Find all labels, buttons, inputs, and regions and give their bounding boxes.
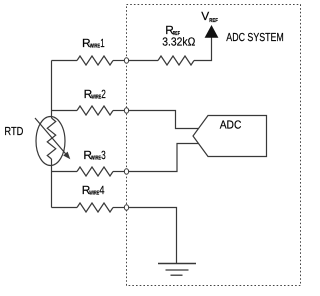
- wire: left vertical bus bottom (RTD down to wire4): [51, 159, 53, 208]
- svg-text:RTD: RTD: [4, 125, 23, 138]
- node 2: [124, 108, 128, 113]
- resistor RWIRE4: [77, 203, 113, 212]
- wire: left vertical bus top (wire1 down to RTD): [51, 61, 53, 119]
- svg-text:3: 3: [101, 148, 106, 162]
- wire: node4 to ground: [128, 208, 176, 264]
- svg-text:3.32kΩ: 3.32kΩ: [162, 36, 195, 49]
- svg-text:WIRE: WIRE: [91, 155, 101, 161]
- node 4: [124, 205, 128, 210]
- wire: RREF to VREF riser: [194, 38, 212, 61]
- svg-text:1: 1: [100, 36, 105, 50]
- wire 3 right segment: [113, 171, 125, 173]
- wire: node3 to ADC negative input: [128, 144, 198, 172]
- resistor RREF: [158, 56, 194, 65]
- wire 1 right segment: [113, 60, 125, 62]
- svg-text:WIRE: WIRE: [89, 190, 99, 196]
- wire 2 left segment: [52, 110, 78, 112]
- wire: node1 to RREF: [128, 60, 158, 62]
- svg-text:2: 2: [101, 87, 106, 101]
- resistor RWIRE3: [77, 167, 113, 176]
- wire 4 left segment: [52, 207, 78, 209]
- node 1: [124, 58, 128, 63]
- wire 3 left segment: [52, 171, 78, 173]
- VREF supply triangle: [205, 25, 219, 38]
- svg-text:ADC: ADC: [220, 118, 242, 131]
- svg-text:4: 4: [99, 183, 105, 197]
- wire 2 right segment: [113, 110, 125, 112]
- wire 4 right segment: [113, 207, 125, 209]
- svg-text:WIRE: WIRE: [90, 44, 100, 50]
- wire 1 left segment: [52, 60, 78, 62]
- resistor RWIRE2: [77, 106, 113, 115]
- RTD internal resistor zigzag: [47, 118, 56, 159]
- svg-text:ADC SYSTEM: ADC SYSTEM: [226, 31, 284, 44]
- ADC SYSTEM dashed boundary box: [127, 5, 301, 286]
- ground: [158, 263, 196, 265]
- node 3: [124, 169, 128, 174]
- ADC block (pennant): [193, 116, 267, 157]
- RTD body ellipse: [36, 117, 65, 166]
- RTD variable-resistance arrow: [35, 118, 66, 154]
- svg-text:WIRE: WIRE: [91, 95, 101, 101]
- svg-text:V: V: [201, 9, 209, 23]
- wire: node2 to ADC positive input: [128, 111, 198, 129]
- svg-text:REF: REF: [209, 18, 218, 24]
- resistor RWIRE1: [77, 56, 113, 65]
